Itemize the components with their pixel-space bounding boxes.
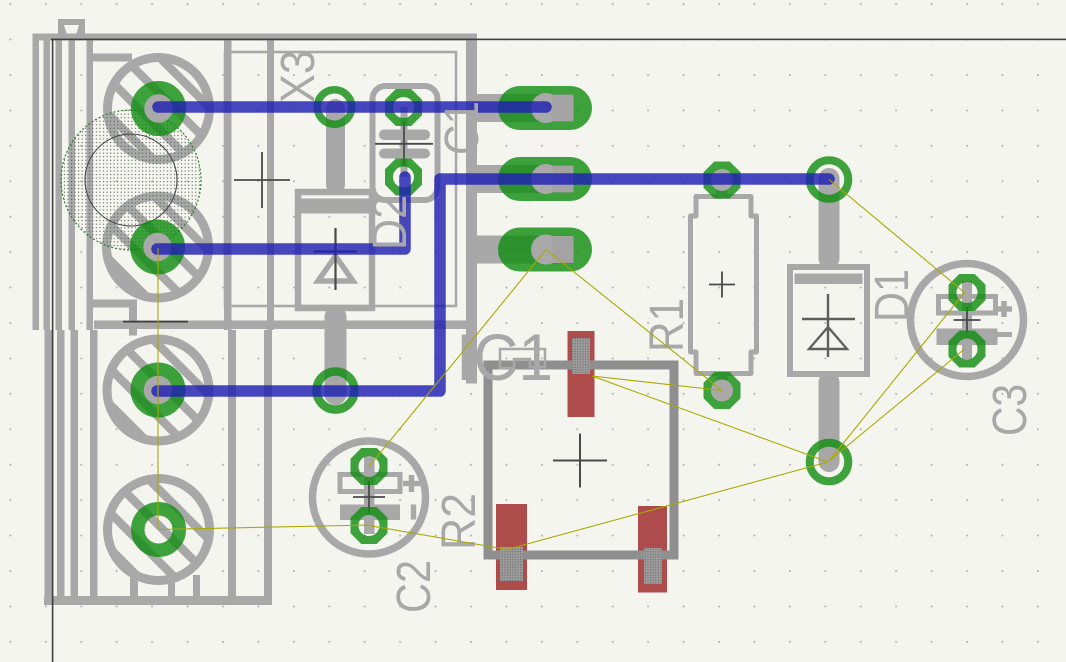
connector top bump: [58, 19, 85, 35]
C2 circle: [313, 441, 426, 554]
D2 top lead: [326, 99, 345, 194]
disc big pad 1: [144, 94, 172, 122]
IC1 pin bottom-left: [500, 547, 523, 581]
connector mid bar top: [92, 54, 132, 62]
big pad circle 1: [103, 53, 214, 164]
svg-text:C2: C2: [388, 560, 441, 613]
connector bottom edge: [44, 596, 272, 605]
D2 cathode band: [300, 199, 370, 214]
capacitor C2: [313, 441, 426, 554]
diode D1: [790, 168, 867, 472]
C3 plus sign: [996, 301, 1012, 317]
R1 top lead: [717, 183, 728, 199]
board outline vertical: [52, 39, 54, 662]
IC1: [488, 331, 674, 593]
C3 origin cross: [954, 307, 981, 333]
C2 origin cross: [353, 481, 385, 513]
connector J silkscreen: [33, 19, 574, 605]
X3 origin cross: [234, 152, 290, 208]
svg-text:D2: D2: [364, 195, 417, 250]
IC1 pad bottom-left (red): [496, 504, 527, 590]
IC1 pad top (red): [568, 331, 595, 417]
svg-text:R1: R1: [641, 298, 694, 352]
oblong pad 1: [498, 86, 592, 130]
capacitor C1: [373, 86, 438, 200]
C2 minus plate: [340, 505, 400, 521]
C2 plus sign: [403, 475, 420, 492]
board outline horizontal: [51, 39, 1066, 41]
C3 lead bar: [962, 281, 972, 359]
pads (green): [137, 86, 986, 550]
trace C: [157, 177, 405, 249]
connector vertical bar A: [224, 36, 232, 330]
IC1 pin top: [572, 338, 590, 374]
X3 thin outline box: [225, 52, 456, 306]
svg-text:C1: C1: [436, 101, 489, 155]
keepout dotted circle: [61, 110, 201, 250]
X3 pin bar 1: [477, 94, 573, 122]
connector left bar 4: [69, 39, 76, 330]
C3 plus plate: [939, 297, 996, 314]
disc oblong 3: [531, 235, 561, 265]
C2 minus sign: [411, 505, 417, 520]
airwire oblong3-R1bot: [546, 250, 722, 391]
connector top edge: [33, 34, 478, 41]
C1 plate 2: [379, 149, 430, 159]
C1 outline: [373, 86, 438, 200]
connector lower box edge: [94, 321, 476, 330]
pad octagon R1 top: [704, 162, 741, 199]
IC1 pad bottom-right (red): [638, 506, 667, 593]
airwire C2-IC1pin1: [369, 526, 507, 550]
airwire pad4-C2: [159, 525, 370, 530]
R1 origin cross: [709, 272, 735, 298]
svg-text:C3: C3: [984, 384, 1037, 436]
D2 body: [298, 192, 372, 308]
connector bottom stub 2: [193, 575, 200, 600]
C1 origin cross: [375, 122, 433, 166]
D1 diode symbol: [802, 294, 855, 357]
connector right partial bar: [466, 34, 477, 384]
D1 bottom lead: [819, 372, 840, 472]
disc big pad 2: [143, 233, 171, 261]
airwire C3top-D1bot: [829, 293, 965, 462]
pad octagon C2 bottom: [351, 507, 388, 544]
pad round X3 mid: [317, 90, 352, 125]
connector left bar 1: [33, 34, 40, 331]
svg-text:X3: X3: [272, 50, 325, 103]
airwire D1top-C3top: [829, 180, 965, 293]
C3 minus plate: [937, 329, 998, 346]
disc hex R1 top: [711, 169, 733, 191]
IC1 small marker: [500, 349, 545, 368]
pad round D1 bottom: [810, 443, 849, 482]
D2 symbol cross: [314, 228, 357, 290]
ratsnest airwires: [158, 180, 965, 550]
C1 plate 1: [379, 130, 430, 141]
X3 pin bar 2: [477, 165, 573, 193]
pad ring big 2: [137, 226, 179, 268]
pad round D2 bottom: [317, 372, 355, 410]
disc oblong 2: [531, 164, 561, 194]
airwire IC1pin1-D1bot: [507, 462, 828, 550]
pad octagon C1 bottom: [385, 159, 422, 196]
D1 top lead: [819, 168, 840, 269]
X3 pin square 2: [553, 166, 574, 193]
IC1 body: [488, 365, 674, 555]
D2 diode symbol triangle: [318, 256, 353, 281]
resistor R1: [691, 183, 757, 388]
C2 plus plate: [340, 475, 400, 492]
pad octagon C3 top: [949, 274, 986, 311]
oblong pad 2: [498, 157, 592, 201]
C1 lead bar: [401, 107, 408, 177]
pad ring big 4: [138, 509, 180, 551]
connector left bar 5: [87, 39, 94, 330]
airwire IC1top-D1bot: [592, 376, 828, 462]
svg-text:IC1: IC1: [456, 320, 553, 394]
C3 minus sign: [997, 332, 1012, 337]
C3 circle: [911, 264, 1024, 377]
pad octagon R1 bottom: [704, 372, 741, 409]
D1 body: [790, 267, 867, 374]
pad octagon C1 top: [385, 89, 422, 126]
connector left bar 3: [56, 39, 63, 330]
disc hex R1 bottom: [711, 380, 733, 402]
oblong pad 3: [498, 228, 592, 272]
big pad circle 2: [102, 192, 213, 303]
disc big pad 3: [144, 376, 172, 404]
pad round D1 top: [810, 160, 849, 199]
connector left bar 2: [44, 39, 51, 330]
X3 pin bar 3: [477, 236, 573, 264]
connector bottom stub 1: [168, 575, 175, 600]
D2 bottom lead: [325, 306, 347, 405]
pad ring big 1: [138, 88, 180, 130]
R1 body: [691, 197, 757, 374]
airwire IC1top-R1bot: [592, 376, 722, 391]
X3 pin square 1: [553, 95, 574, 122]
pad ring big 3: [137, 369, 179, 411]
capacitor C3: [911, 264, 1024, 377]
pad octagon C3 bottom: [949, 331, 986, 368]
big pad circle 4: [103, 474, 214, 585]
D1 cathode band: [795, 274, 863, 285]
airwire C2top-oblong3: [369, 250, 546, 467]
traces (bottom copper, blue): [157, 107, 829, 391]
svg-text:D1: D1: [866, 269, 919, 322]
short dark mark under pad2: [123, 321, 188, 323]
IC1 origin cross: [553, 434, 607, 488]
diode D2: [298, 99, 372, 405]
R1 bottom lead: [717, 372, 728, 388]
connector vertical bar B: [267, 39, 274, 330]
airwire pad2-pad4: [157, 248, 159, 530]
big pad circle 3: [103, 335, 214, 446]
connector lower box corner: [88, 300, 130, 308]
trace A: [158, 101, 546, 113]
drill discs: [143, 93, 733, 404]
trace B/D: [157, 179, 829, 391]
X3 pin square 3: [553, 236, 574, 263]
pad octagon C2 top: [351, 448, 388, 485]
disc oblong 1: [531, 93, 561, 123]
C2 lead bar: [364, 456, 375, 534]
IC1 pin bottom-right: [644, 548, 662, 584]
airwire C3bot-D1bot: [829, 349, 965, 461]
